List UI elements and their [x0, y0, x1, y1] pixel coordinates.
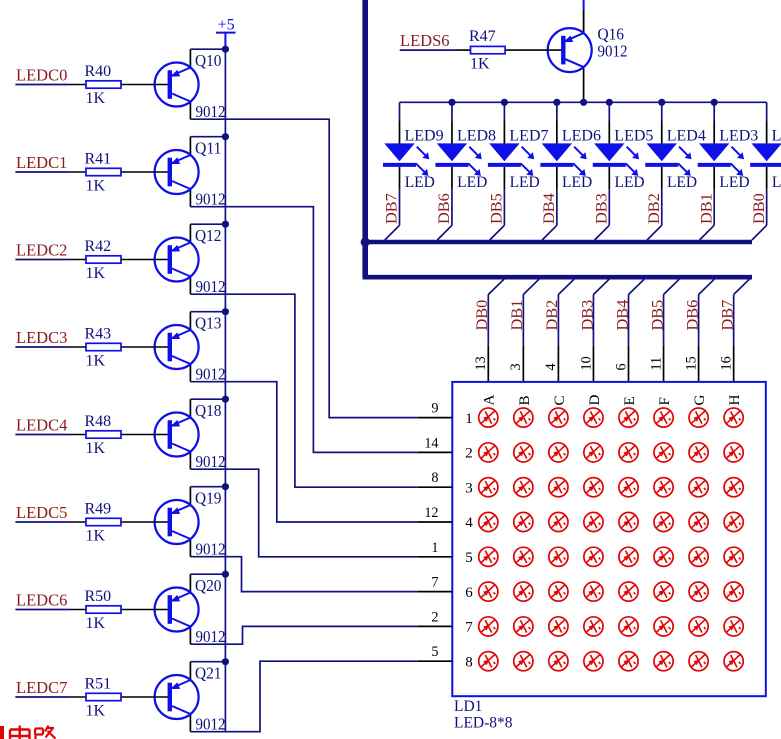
svg-text:LED6: LED6 [562, 128, 601, 145]
wire collector run [190, 661, 417, 732]
svg-text:9012: 9012 [598, 42, 628, 61]
svg-text:5: 5 [431, 644, 438, 660]
junction dot [222, 571, 229, 578]
wire emitter to +5 rail [190, 48, 225, 50]
matrix pixel r3C [549, 478, 568, 497]
svg-text:9012: 9012 [196, 627, 226, 646]
pin 1 [418, 556, 453, 558]
svg-text:9012: 9012 [196, 365, 226, 384]
pin 5 [418, 660, 453, 662]
bus entry [488, 279, 504, 294]
matrix pixel r2B [514, 443, 533, 462]
matrix pixel r6H [724, 582, 743, 601]
svg-text:15: 15 [683, 356, 699, 370]
wire [15, 84, 68, 86]
junction dot [222, 308, 229, 315]
svg-text:DB1: DB1 [507, 300, 526, 331]
wire [399, 189, 401, 225]
matrix pixel r3F [654, 478, 673, 497]
transistor Q19 [140, 487, 226, 559]
svg-text:5: 5 [465, 550, 473, 566]
bus entry [629, 279, 645, 294]
matrix pixel r7H [724, 617, 743, 636]
resistor R40 [69, 63, 140, 107]
resistor R41 [69, 150, 140, 194]
matrix pixel r6E [619, 582, 638, 601]
caption fragment (partial character) [0, 726, 4, 739]
wire LED anode rail [400, 101, 767, 103]
wire [661, 189, 663, 225]
svg-text:1K: 1K [86, 527, 106, 544]
junction dot [501, 99, 508, 106]
matrix pixel r5C [549, 547, 568, 566]
wire collector run [190, 294, 417, 487]
matrix pixel r3H [724, 478, 743, 497]
wire emitter to +5 rail [190, 398, 225, 400]
matrix pixel r4A [479, 512, 498, 531]
matrix pixel r2H [724, 443, 743, 462]
wire [628, 295, 630, 346]
wire [556, 189, 558, 225]
svg-text:9012: 9012 [196, 102, 226, 121]
svg-text:Q13: Q13 [195, 314, 222, 333]
svg-text:11: 11 [648, 357, 664, 371]
matrix pixel r1A [479, 408, 498, 427]
bus entry [700, 225, 715, 240]
matrix pixel r6F [654, 582, 673, 601]
svg-text:12: 12 [424, 505, 438, 521]
bus entry [699, 279, 715, 294]
matrix pixel r7C [549, 617, 568, 636]
matrix pixel r8D [584, 652, 603, 671]
svg-text:3: 3 [508, 363, 524, 370]
svg-text:LED: LED [457, 174, 487, 191]
wire [15, 609, 68, 611]
wire [503, 189, 505, 225]
matrix pixel r5A [479, 547, 498, 566]
wire collector run [190, 207, 417, 453]
svg-text:9012: 9012 [196, 715, 226, 734]
svg-text:4: 4 [543, 363, 559, 370]
matrix pixel r1H [724, 408, 743, 427]
wire [698, 295, 700, 346]
pin 9 [418, 417, 453, 419]
svg-text:1: 1 [431, 540, 438, 556]
svg-text:LED: LED [405, 174, 435, 191]
svg-text:DB3: DB3 [577, 300, 596, 331]
svg-text:Q19: Q19 [195, 489, 222, 508]
svg-text:Q21: Q21 [195, 664, 222, 683]
svg-text:1: 1 [465, 411, 473, 427]
matrix pixel r8E [619, 652, 638, 671]
bus entry [490, 225, 505, 240]
svg-text:D: D [586, 395, 603, 406]
pin 11 [663, 346, 665, 382]
matrix pixel r1C [549, 408, 568, 427]
pin 10 [592, 346, 594, 382]
matrix pixel r7G [689, 617, 708, 636]
svg-text:Q18: Q18 [195, 401, 222, 420]
wire [733, 295, 735, 346]
svg-text:C: C [551, 395, 568, 405]
svg-text:LED5: LED5 [614, 128, 653, 145]
matrix pixel r7E [619, 617, 638, 636]
svg-text:Q11: Q11 [195, 139, 222, 158]
matrix pixel r5G [689, 547, 708, 566]
svg-text:LED: LED [510, 174, 540, 191]
svg-text:LED: LED [772, 174, 781, 191]
svg-text:DB0: DB0 [472, 300, 491, 331]
svg-text:DB2: DB2 [644, 193, 663, 224]
svg-text:DB4: DB4 [612, 300, 631, 331]
junction dot [222, 483, 229, 490]
wire [15, 346, 68, 348]
svg-text:9012: 9012 [196, 277, 226, 296]
pin 12 [418, 521, 453, 523]
bus entry [752, 225, 767, 240]
power +5 [216, 17, 236, 48]
svg-text:DB7: DB7 [382, 193, 401, 224]
svg-text:9: 9 [431, 401, 438, 417]
transistor Q16 [524, 0, 628, 102]
svg-text:LEDC1: LEDC1 [16, 153, 67, 172]
svg-text:LEDC5: LEDC5 [16, 503, 67, 522]
matrix pixel r8H [724, 652, 743, 671]
svg-text:LEDC7: LEDC7 [16, 678, 67, 697]
wire [15, 434, 68, 436]
svg-text:Q12: Q12 [195, 226, 222, 245]
wire [766, 189, 768, 225]
pin 15 [698, 346, 700, 382]
svg-text:Q20: Q20 [195, 576, 222, 595]
svg-text:14: 14 [424, 435, 438, 451]
svg-text:G: G [691, 395, 708, 406]
svg-text:LED: LED [667, 174, 697, 191]
svg-text:LED: LED [719, 174, 749, 191]
matrix pixel r1E [619, 408, 638, 427]
wire [608, 189, 610, 225]
resistor R42 [69, 238, 140, 282]
svg-text:LD1: LD1 [454, 698, 482, 715]
svg-text:LED8: LED8 [457, 128, 496, 145]
svg-text:7: 7 [431, 575, 438, 591]
wire [15, 521, 68, 523]
resistor R51 [69, 675, 140, 719]
wire [713, 189, 715, 225]
svg-text:10: 10 [578, 356, 594, 370]
pin 2 [418, 625, 453, 627]
junction dot [658, 99, 665, 106]
matrix pixel r4F [654, 512, 673, 531]
resistor R50 [69, 588, 140, 632]
matrix pixel r8C [549, 652, 568, 671]
svg-text:4: 4 [465, 515, 473, 531]
wire collector run [190, 626, 417, 644]
resistor R48 [69, 413, 140, 457]
matrix pixel r6D [584, 582, 603, 601]
svg-text:R41: R41 [85, 150, 112, 167]
LED LED9 [383, 102, 444, 191]
wire [487, 295, 489, 346]
bus junction dot [361, 237, 370, 246]
wire [663, 295, 665, 346]
svg-text:R42: R42 [85, 238, 112, 255]
caption character dian (drawn strokes, clipped) [10, 726, 30, 739]
bus entry [542, 225, 557, 240]
wire collector run [190, 382, 417, 522]
wire [557, 295, 559, 346]
matrix pixel r5F [654, 547, 673, 566]
svg-text:LED7: LED7 [509, 128, 548, 145]
bus lower branch [363, 275, 752, 280]
svg-text:H: H [726, 395, 743, 406]
LED LED6 [540, 102, 601, 191]
svg-text:1K: 1K [86, 90, 106, 107]
svg-text:9012: 9012 [196, 540, 226, 559]
matrix pixel r1F [654, 408, 673, 427]
wire [15, 696, 68, 698]
svg-text:R43: R43 [85, 325, 112, 342]
svg-text:13: 13 [473, 356, 489, 370]
svg-text:DB2: DB2 [542, 300, 561, 331]
bus upper branch [365, 240, 752, 245]
matrix pixel r8F [654, 652, 673, 671]
matrix pixel r3G [689, 478, 708, 497]
svg-text:8: 8 [465, 654, 473, 670]
svg-text:R48: R48 [85, 413, 112, 430]
matrix pixel r5B [514, 547, 533, 566]
matrix pixel r6B [514, 582, 533, 601]
svg-text:DB6: DB6 [682, 300, 701, 331]
wire emitter to +5 rail [190, 136, 225, 138]
svg-text:Q10: Q10 [195, 51, 222, 70]
svg-text:DB1: DB1 [696, 193, 715, 224]
LED matrix LD1 body [452, 382, 766, 696]
svg-text:LEDC6: LEDC6 [16, 591, 67, 610]
matrix pixel r7F [654, 617, 673, 636]
svg-text:LEDC3: LEDC3 [16, 328, 67, 347]
bus entry [593, 279, 609, 294]
matrix pixel r2G [689, 443, 708, 462]
LED LED7 [488, 102, 549, 191]
matrix pixel r2A [479, 443, 498, 462]
matrix pixel r3A [479, 478, 498, 497]
wire [15, 259, 68, 261]
matrix pixel r8A [479, 652, 498, 671]
matrix pixel r4D [584, 512, 603, 531]
matrix pixel r1G [689, 408, 708, 427]
svg-text:LED: LED [562, 174, 592, 191]
matrix pixel r5H [724, 547, 743, 566]
svg-text:LEDC2: LEDC2 [16, 241, 67, 260]
bus vertical [362, 0, 368, 277]
junction dot [711, 99, 718, 106]
matrix pixel r2D [584, 443, 603, 462]
wire [592, 295, 594, 346]
svg-text:LEDC4: LEDC4 [16, 416, 67, 435]
matrix pixel r6G [689, 582, 708, 601]
svg-text:LED3: LED3 [719, 128, 758, 145]
svg-text:R47: R47 [469, 28, 496, 45]
junction dot [448, 99, 455, 106]
svg-text:1K: 1K [86, 702, 106, 719]
resistor R43 [69, 325, 140, 369]
transistor Q20 [140, 574, 226, 646]
junction dot [580, 99, 587, 106]
bus entry [595, 225, 610, 240]
svg-text:8: 8 [431, 470, 438, 486]
svg-text:R40: R40 [85, 63, 112, 80]
transistor Q21 [140, 662, 226, 734]
bus entry [385, 225, 400, 240]
wire [522, 295, 524, 346]
wire [15, 171, 68, 173]
matrix pixel r3B [514, 478, 533, 497]
matrix pixel r5D [584, 547, 603, 566]
wire collector run [190, 119, 417, 417]
svg-text:1K: 1K [86, 615, 106, 632]
LED LED4 [645, 102, 706, 191]
matrix pixel r7B [514, 617, 533, 636]
matrix pixel r4G [689, 512, 708, 531]
bus entry [664, 279, 680, 294]
junction dot [222, 133, 229, 140]
svg-text:+5: +5 [218, 17, 235, 34]
wire emitter to +5 rail [190, 661, 225, 663]
LED LED2 [750, 102, 781, 191]
svg-text:DB3: DB3 [592, 193, 611, 224]
svg-text:DB0: DB0 [749, 193, 768, 224]
pin 13 [487, 346, 489, 382]
resistor R49 [69, 500, 140, 544]
matrix pixel r4B [514, 512, 533, 531]
matrix pixel r4H [724, 512, 743, 531]
svg-text:F: F [656, 397, 673, 405]
svg-text:1K: 1K [86, 265, 106, 282]
junction dot [606, 99, 613, 106]
junction dot [222, 658, 229, 665]
transistor Q18 [140, 399, 226, 471]
LED LED5 [593, 102, 654, 191]
LED LED3 [698, 102, 759, 191]
matrix pixel r8G [689, 652, 708, 671]
svg-text:R51: R51 [85, 675, 112, 692]
pin 8 [418, 486, 453, 488]
svg-text:1K: 1K [86, 352, 106, 369]
bus entry [523, 279, 539, 294]
svg-text:LEDC0: LEDC0 [16, 66, 67, 85]
wire emitter to +5 rail [190, 486, 225, 488]
pin 4 [557, 346, 559, 382]
svg-text:1K: 1K [86, 440, 106, 457]
svg-text:R49: R49 [85, 500, 112, 517]
svg-text:DB4: DB4 [539, 193, 558, 224]
wire +5 rail [224, 48, 226, 732]
wire collector run [190, 557, 417, 592]
pin 3 [522, 346, 524, 382]
pin 16 [733, 346, 735, 382]
bus entry [734, 279, 750, 294]
svg-text:7: 7 [465, 620, 473, 636]
resistor R47 [454, 28, 524, 72]
matrix pixel r2E [619, 443, 638, 462]
svg-text:DB6: DB6 [434, 193, 453, 224]
svg-text:DB5: DB5 [647, 300, 666, 331]
pin 7 [418, 591, 453, 593]
matrix pixel r1B [514, 408, 533, 427]
svg-text:LED9: LED9 [405, 128, 444, 145]
svg-text:LEDS6: LEDS6 [400, 31, 450, 50]
matrix pixel r2F [654, 443, 673, 462]
svg-text:3: 3 [465, 480, 473, 496]
matrix pixel r2C [549, 443, 568, 462]
matrix pixel r6C [549, 582, 568, 601]
transistor Q10 [140, 49, 226, 121]
svg-text:LED-8*8: LED-8*8 [454, 715, 513, 732]
svg-text:A: A [481, 395, 498, 406]
svg-text:9012: 9012 [196, 190, 226, 209]
svg-text:R50: R50 [85, 588, 112, 605]
svg-text:6: 6 [465, 585, 473, 601]
svg-text:DB5: DB5 [487, 193, 506, 224]
pin 14 [418, 451, 453, 453]
wire emitter to +5 rail [190, 573, 225, 575]
svg-text:2: 2 [465, 446, 473, 462]
matrix pixel r4E [619, 512, 638, 531]
matrix pixel r7A [479, 617, 498, 636]
matrix pixel r4C [549, 512, 568, 531]
svg-text:16: 16 [718, 356, 734, 370]
bus entry [647, 225, 662, 240]
svg-text:LED2: LED2 [772, 128, 781, 145]
pin 6 [628, 346, 630, 382]
transistor Q12 [140, 224, 226, 296]
svg-text:E: E [621, 396, 638, 405]
svg-text:2: 2 [431, 609, 438, 625]
matrix pixel r3D [584, 478, 603, 497]
svg-text:LED: LED [615, 174, 645, 191]
svg-text:DB7: DB7 [717, 300, 736, 331]
junction dot [553, 99, 560, 106]
transistor Q13 [140, 312, 226, 384]
junction dot [222, 396, 229, 403]
wire [451, 189, 453, 225]
svg-text:LED4: LED4 [667, 128, 706, 145]
matrix pixel r5E [619, 547, 638, 566]
junction dot [222, 221, 229, 228]
matrix pixel r1D [584, 408, 603, 427]
svg-text:1K: 1K [86, 177, 106, 194]
bus entry [437, 225, 452, 240]
caption character lu (drawn strokes, clipped) [35, 726, 56, 739]
LED LED8 [435, 102, 496, 191]
wire collector run [190, 469, 417, 557]
wire emitter to +5 rail [190, 311, 225, 313]
matrix pixel r6A [479, 582, 498, 601]
svg-text:1K: 1K [470, 55, 490, 72]
junction dot [222, 46, 229, 53]
transistor Q11 [140, 137, 226, 209]
matrix pixel r3E [619, 478, 638, 497]
svg-text:B: B [516, 395, 533, 405]
wire [400, 49, 454, 51]
matrix pixel r7D [584, 617, 603, 636]
matrix pixel r8B [514, 652, 533, 671]
bus entry [558, 279, 574, 294]
svg-text:9012: 9012 [196, 452, 226, 471]
wire emitter to +5 rail [190, 223, 225, 225]
svg-text:6: 6 [613, 363, 629, 370]
